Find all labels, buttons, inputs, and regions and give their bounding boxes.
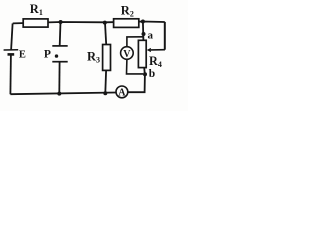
- wire R3 lower: [104, 70, 107, 93]
- label R1: [30, 2, 43, 17]
- capacitor P bottom plate: [52, 61, 67, 63]
- wire b stub: [143, 68, 146, 75]
- node junction capacitor bottom: [57, 92, 61, 96]
- battery E short plate: [8, 53, 15, 56]
- wire bottom: [10, 93, 116, 95]
- svg-text:b: b: [149, 68, 155, 80]
- battery E long plate: [4, 49, 19, 51]
- node a: [142, 32, 146, 36]
- wire right edge: [164, 22, 166, 50]
- resistor R2: [114, 19, 139, 28]
- resistor R4: [138, 40, 146, 67]
- wire voltmeter lower: [127, 59, 144, 74]
- svg-text:a: a: [148, 29, 154, 41]
- svg-text:V: V: [123, 49, 131, 60]
- svg-text:R3: R3: [87, 50, 100, 65]
- svg-text:E: E: [19, 50, 26, 61]
- node junction a-branch top: [141, 20, 145, 24]
- node junction R3 bottom: [103, 91, 107, 95]
- wire R3 upper: [105, 23, 106, 45]
- label R4: [149, 54, 162, 69]
- resistor R1: [23, 19, 48, 27]
- ammeter A: [116, 86, 128, 99]
- svg-text:R2: R2: [121, 4, 134, 19]
- wire voltmeter upper: [127, 37, 143, 47]
- label a: [148, 29, 154, 41]
- battery label E: [19, 50, 26, 61]
- charged particle dot: [55, 54, 58, 57]
- node b: [143, 72, 147, 76]
- node junction capacitor top: [59, 20, 63, 24]
- svg-text:R4: R4: [149, 54, 162, 69]
- label P: [44, 49, 51, 61]
- svg-text:P: P: [44, 49, 51, 61]
- svg-text:A: A: [118, 88, 126, 99]
- resistor R3: [103, 45, 111, 71]
- capacitor P top plate: [52, 45, 67, 47]
- rheostat slider arrow: [147, 48, 165, 52]
- voltmeter V: [121, 47, 134, 60]
- label b: [149, 68, 155, 80]
- wire a stub: [142, 22, 145, 41]
- wire capacitor upper: [59, 22, 62, 46]
- wire top: [13, 22, 165, 24]
- node junction R3 top: [103, 21, 107, 25]
- wire bottom right + riser to b: [128, 74, 145, 92]
- wire capacitor lower: [58, 62, 60, 94]
- label R2: [121, 4, 134, 19]
- wire left lower: [9, 54, 12, 94]
- svg-text:R1: R1: [30, 2, 43, 17]
- wire left upper: [11, 23, 13, 50]
- label R3: [87, 50, 100, 65]
